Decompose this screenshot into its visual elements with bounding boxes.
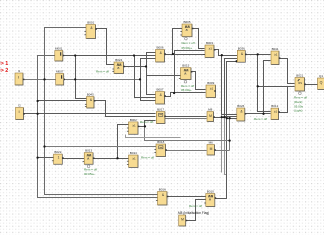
junction at 226.8,118.2	[226, 117, 228, 119]
svg-text:Rem = off: Rem = off	[141, 156, 154, 160]
flag M8 mid	[207, 108, 214, 122]
flag M8 bottom	[179, 215, 186, 226]
svg-text:B036: B036	[238, 47, 245, 51]
flag M6	[207, 141, 215, 155]
junction at 257.7,54.4	[257, 53, 259, 55]
svg-text:B011: B011	[272, 47, 279, 51]
output pin at 62.8,55.5	[63, 55, 65, 57]
svg-text:Rem = off: Rem = off	[84, 168, 97, 172]
flag M007	[56, 70, 64, 85]
output pin at 191,71.8	[191, 71, 193, 73]
timer B010	[204, 190, 215, 207]
svg-text:M: M	[209, 114, 212, 118]
wire bundle v1	[222, 56, 238, 115]
timer B015	[179, 64, 191, 80]
svg-text:≥1: ≥1	[274, 110, 278, 114]
svg-text:M8: M8	[208, 108, 212, 112]
svg-text:I1: I1	[18, 69, 21, 73]
junction at 63.7,79.4	[63, 78, 65, 80]
gate B001 AND	[84, 21, 95, 39]
junction at 140,79.4	[139, 78, 141, 80]
svg-text:M001: M001	[55, 47, 63, 51]
gate B002 OR	[127, 118, 138, 134]
svg-text:B017: B017	[157, 108, 164, 112]
wire B018 out to M6	[166, 150, 207, 152]
latch B021 RS	[295, 74, 305, 91]
wire B001 out to B024	[96, 29, 115, 65]
svg-text:B015: B015	[182, 64, 189, 68]
svg-text:=> 1: => 1	[0, 61, 8, 67]
output pin at 164.5,96	[164, 95, 166, 97]
wire bundle v3 long	[215, 62, 238, 199]
gate B045 AND	[85, 93, 94, 108]
wire net I2 vertical x38	[38, 56, 158, 198]
svg-text:I2: I2	[18, 104, 21, 108]
wire branch to B021 S in2	[258, 86, 295, 88]
svg-text:05:00s+: 05:00s+	[182, 46, 193, 50]
junction at 224.2,117.1	[223, 116, 225, 118]
wire M8 out to B010 in2	[186, 200, 206, 221]
wire M007 out bus	[64, 79, 141, 81]
wire B022 out to B013	[63, 158, 85, 160]
output pin at 214.5,150	[214, 149, 216, 151]
svg-text:Rem = off: Rem = off	[254, 117, 267, 121]
svg-text:Rem = off: Rem = off	[294, 96, 307, 100]
wire branch to B005 in	[173, 29, 183, 55]
wire x134 to B007 in2	[135, 56, 156, 98]
output pin at 245.3,54.4	[245, 54, 247, 56]
output pin at 23.5,113.8	[23, 113, 25, 115]
junction at 44.5,146.5	[43, 145, 45, 147]
wire B017 out to M8	[165, 116, 207, 118]
gate B016 AND	[156, 188, 167, 205]
wire bundle v3 branch B026 in3	[227, 118, 237, 120]
junction at 145,126.4	[144, 125, 146, 127]
output pin at 62.3,158	[62, 157, 64, 159]
junction at 117.5,158.2	[116, 157, 118, 159]
svg-text:M: M	[210, 147, 213, 151]
output pin at 23,79.4	[23, 79, 25, 81]
param circle B005	[185, 37, 188, 40]
wire branch up x263 to B011 in3	[264, 61, 271, 114]
wire branch to B017 in3	[145, 121, 156, 127]
output pin at 213.5,117.1	[213, 116, 215, 118]
svg-text:M8 (Initialisation Flag): M8 (Initialisation Flag)	[178, 211, 209, 215]
output pin at 279,58.1	[279, 57, 281, 59]
output pin at 164.5,116.3	[164, 116, 166, 118]
block B024 timer	[112, 58, 123, 73]
junction at 257.7,86.3	[257, 85, 259, 87]
wire to B014 in	[118, 158, 129, 160]
wire I2 branch to B045 in2	[38, 100, 87, 102]
svg-text:B009: B009	[207, 81, 214, 85]
wire branch x75 to B045 in1	[76, 56, 87, 99]
svg-text:Rem = off: Rem = off	[96, 70, 109, 74]
wire x140 B006 in3 to B007 in3	[141, 59, 156, 101]
svg-text:B026: B026	[237, 104, 244, 108]
gate B009 OR	[206, 81, 216, 97]
output pin at 185.8,220.5	[186, 220, 188, 222]
junction at 221.8,117.1	[221, 116, 223, 118]
input I2	[16, 104, 24, 120]
output pin at 192,28.5	[192, 28, 194, 30]
svg-text:≥1: ≥1	[209, 46, 213, 50]
wire B045 out to B017	[95, 101, 156, 117]
param circle B013	[87, 165, 90, 168]
output pin at 214,49.8	[214, 49, 216, 51]
svg-text:Rem = off: Rem = off	[189, 204, 202, 208]
svg-text:Q: Q	[320, 80, 323, 84]
output pin at 95.5,29	[95, 28, 97, 30]
wire B016 out to B010	[167, 196, 206, 198]
svg-text:≥1: ≥1	[132, 123, 136, 127]
flag M001	[55, 47, 63, 61]
svg-text:B014: B014	[130, 151, 137, 155]
junction at 236.6,61.3	[235, 60, 237, 62]
svg-text:M007: M007	[56, 70, 64, 74]
junction at 263.5,113.8	[262, 113, 264, 115]
junction at 44.5,79.4	[43, 78, 45, 80]
param circle B021 RS	[299, 92, 302, 95]
wire B036 out to B011	[246, 54, 271, 56]
svg-text:M: M	[181, 218, 184, 222]
svg-text:B005: B005	[183, 20, 190, 24]
svg-text:B012: B012	[271, 104, 278, 108]
svg-text:B013: B013	[85, 149, 92, 153]
junction at 229.6,118.2	[228, 117, 230, 119]
wire B006 out to B003	[165, 54, 205, 56]
output pin at 165.5,150	[165, 149, 167, 151]
junction at 221.8,55.2	[221, 54, 223, 56]
wire branch B007 to B003 in2	[175, 51, 205, 93]
svg-text:B016: B016	[159, 188, 166, 192]
timer B013	[83, 149, 94, 165]
svg-text:B002: B002	[130, 118, 137, 122]
output pin at 94,100.8	[94, 100, 96, 102]
junction at 75.2,55.5	[74, 54, 76, 56]
wire B002 bottom stub	[126, 135, 181, 138]
svg-text:B045: B045	[87, 93, 94, 97]
svg-text:I: I	[18, 74, 19, 79]
output pin at 214.8,198	[215, 197, 217, 199]
junction at 146,66.5	[145, 65, 147, 67]
wire B021 out to Q1	[305, 84, 318, 86]
output Q1	[318, 74, 324, 89]
svg-text:B022: B022	[54, 150, 61, 154]
wire to B015 in	[147, 75, 181, 77]
wire B011 out to B021 in1	[279, 59, 295, 84]
output pin at 138,126.4	[138, 126, 140, 128]
output pin at 123.5,66.5	[123, 66, 125, 68]
wire x117 up	[118, 125, 129, 159]
svg-text:B001: B001	[87, 21, 94, 25]
svg-text:≥1: ≥1	[132, 156, 136, 160]
gate B003 OR	[203, 41, 214, 57]
svg-text:00:05s+: 00:05s+	[84, 172, 95, 176]
svg-text:≥1: ≥1	[210, 86, 214, 90]
wire B002 out bus	[145, 127, 230, 141]
wire M8a out	[214, 117, 227, 119]
block B022	[52, 150, 62, 164]
output pin at 93.1,158.2	[93, 157, 95, 159]
wire B003 out	[215, 50, 222, 56]
wire I2 out long	[24, 113, 156, 115]
wire M6 out	[215, 150, 230, 152]
junction at 134,55.5	[133, 54, 135, 56]
junction at 75.2,79.4	[74, 78, 76, 80]
gate B006 AND	[156, 46, 165, 62]
wire B024 out	[124, 66, 147, 68]
svg-text:=> 2: => 2	[0, 68, 8, 74]
gate B036 AND	[237, 47, 245, 63]
wire B026 out to B012	[245, 113, 271, 115]
svg-text:B006: B006	[156, 46, 163, 50]
gate B026 AND	[237, 104, 245, 121]
svg-text:M6: M6	[209, 141, 213, 145]
svg-text:B010: B010	[207, 190, 214, 194]
svg-text:B021: B021	[296, 74, 303, 78]
junction at 229.6,140.6	[228, 139, 230, 141]
wire I2 branch to B022	[38, 157, 54, 159]
wire B002 out	[139, 126, 145, 128]
junction at 37.6,157.6	[36, 156, 38, 158]
svg-text:B007: B007	[156, 88, 163, 92]
svg-text:(Dark): (Dark)	[294, 100, 302, 104]
wire bundle v1 tail	[221, 115, 223, 173]
param circle B015	[184, 80, 187, 83]
junction at 172.9,54	[172, 53, 174, 55]
wire B012 out up	[279, 87, 288, 113]
wire B015 out to B009 in1	[191, 72, 206, 90]
block B017	[156, 108, 165, 124]
gate B007 AND	[156, 88, 165, 104]
svg-text:≥1: ≥1	[274, 52, 278, 56]
output pin at 304.5,84.3	[304, 84, 306, 86]
wire B013 out to OR blocks	[94, 158, 118, 160]
wire bundle v2 tail	[225, 117, 227, 175]
output pin at 164.5,54	[164, 53, 166, 55]
input I1	[15, 69, 23, 85]
output pin at 278.5,112	[278, 111, 280, 113]
wire net I1 vertical x44	[45, 28, 158, 195]
svg-text:Rem = off: Rem = off	[140, 120, 153, 124]
svg-text:B018: B018	[157, 140, 164, 144]
svg-text:B024: B024	[115, 58, 122, 62]
gate B012 OR	[271, 104, 279, 119]
svg-text:05:00s+: 05:00s+	[181, 88, 192, 92]
wire branch x257 down	[258, 55, 271, 112]
junction at 174.1,93	[173, 92, 175, 94]
output pin at 167,196.5	[167, 196, 169, 198]
svg-text:RS: RS	[298, 81, 302, 85]
wire x146 to B006 B007 in1	[147, 53, 156, 95]
timer B005	[180, 20, 192, 37]
wire B005 out to B003 in1	[193, 29, 205, 49]
wire bundle v2	[225, 59, 238, 117]
output pin at 244.8,113.8	[245, 113, 247, 115]
svg-text:(Light): (Light)	[294, 109, 303, 113]
junction at 37.6,113.8	[36, 113, 38, 115]
wire M001 out bus	[63, 55, 156, 57]
svg-text:03:00s: 03:00s	[294, 104, 304, 108]
wire x229 down to M6 out	[229, 119, 231, 151]
svg-text:B003: B003	[206, 41, 213, 45]
wire I1 out	[23, 79, 56, 81]
output pin at 214.5,91	[214, 90, 216, 92]
block B018	[154, 140, 165, 156]
svg-text:Q1: Q1	[319, 74, 323, 78]
svg-text:Rem = off: Rem = off	[182, 41, 195, 45]
svg-text:I: I	[19, 109, 20, 114]
junction at 37.6,101	[36, 100, 38, 102]
svg-text:1: 1	[58, 156, 60, 160]
gate B011 OR	[271, 47, 279, 64]
wire B007 out to B009	[165, 93, 206, 97]
gate B014 OR	[127, 151, 138, 167]
wire B017 aux line	[165, 118, 207, 120]
wire I1 branch to B018	[45, 146, 157, 148]
